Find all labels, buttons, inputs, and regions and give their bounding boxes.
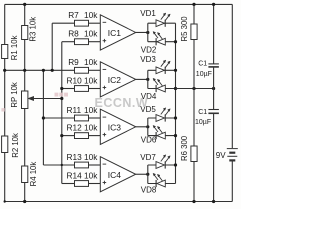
node ladder mid / R7 feed	[51, 69, 54, 72]
resistor R8 body	[75, 39, 89, 45]
svg-text:R8: R8	[68, 29, 79, 39]
capacitor C1 upper plates	[208, 63, 219, 65]
IC4 non-inverting input mark	[103, 182, 107, 184]
resistor R9 body	[75, 67, 89, 73]
VD3 emission arrows	[161, 61, 165, 66]
wire R3 column	[24, 4, 26, 25]
wire LED pair left junction VD5/VD6	[147, 118, 149, 136]
op-amp IC3	[100, 109, 135, 144]
svg-text:C1: C1	[198, 109, 207, 116]
node LED bus / VD3	[174, 69, 177, 72]
wire ladder mid bus	[5, 69, 75, 71]
resistor R11 body	[75, 115, 89, 121]
wire LED pair left junction VD7/VD8	[147, 165, 149, 184]
node mid rail / R5 column	[192, 87, 195, 90]
wire mid rail	[176, 88, 214, 90]
wire R7 feed horizontal	[52, 22, 74, 24]
wire VD7 branch	[148, 164, 176, 166]
node signal bus / R10	[60, 87, 63, 90]
LED VD8	[157, 180, 165, 187]
wire C1 upper to mid rail	[213, 67, 215, 89]
IC1 inverting input mark	[103, 21, 107, 23]
svg-text:R5 300: R5 300	[180, 16, 189, 42]
wire R12 feed	[62, 135, 75, 137]
IC2 non-inverting input mark	[103, 87, 107, 89]
svg-text:R10: R10	[67, 75, 83, 85]
node R4 column / ground rail	[23, 200, 26, 203]
battery GB 9V	[230, 148, 234, 162]
node LED bus / VD7	[174, 163, 177, 166]
resistor R6	[191, 146, 197, 162]
node LED bus / VD6	[174, 134, 177, 137]
node IC3 output junction	[146, 125, 149, 128]
svg-text:IC4: IC4	[108, 170, 122, 180]
svg-text:9V: 9V	[216, 151, 226, 160]
svg-text:VD1: VD1	[140, 9, 156, 18]
LED VD4	[157, 85, 165, 92]
LED VD7	[156, 162, 164, 169]
svg-text:10k: 10k	[84, 29, 98, 39]
wire LED pair left junction VD1/VD2	[147, 23, 149, 42]
node ladder mid / border	[3, 69, 6, 72]
svg-text:VD6: VD6	[141, 136, 157, 145]
svg-text:R6 300: R6 300	[180, 135, 189, 161]
svg-text:10k: 10k	[84, 10, 98, 20]
wire VD4 branch	[148, 88, 176, 90]
node LED bus / VD4	[174, 87, 177, 90]
node signal bus crossing R13 feed	[61, 164, 63, 166]
svg-text:R11: R11	[67, 105, 82, 115]
node signal bus / RP wiper	[60, 97, 63, 100]
wire R13 to op-amp input	[89, 164, 101, 166]
svg-text:VD8: VD8	[141, 185, 157, 194]
wire bottom ground rail	[5, 201, 233, 203]
IC4 inverting input mark	[103, 163, 107, 165]
node top rail / R3 column	[23, 3, 26, 6]
resistor R13 body	[75, 162, 89, 168]
wire left border (divider chain)	[4, 4, 6, 201]
IC3 non-inverting input mark	[103, 134, 107, 136]
wire R6 to ground rail	[193, 162, 195, 202]
svg-text:R2 10k: R2 10k	[11, 133, 20, 158]
svg-text:R4 10k: R4 10k	[29, 162, 38, 187]
svg-text:R13: R13	[67, 152, 83, 162]
svg-text:C1: C1	[198, 60, 207, 67]
svg-text:10k: 10k	[84, 75, 98, 85]
svg-text:IC1: IC1	[108, 28, 122, 38]
node ladder mid / minus bus	[42, 69, 45, 72]
svg-text:10k: 10k	[84, 152, 98, 162]
svg-text:R7: R7	[68, 10, 79, 20]
resistor R4	[22, 166, 28, 183]
wire VD1 branch	[148, 22, 176, 24]
wire VD8 branch	[148, 183, 176, 185]
VD1 emission arrows	[161, 14, 165, 19]
wire R11 feed	[43, 117, 74, 119]
svg-text:ECCN.W: ECCN.W	[95, 96, 149, 110]
svg-text:10k: 10k	[84, 170, 98, 180]
resistor R12 body	[75, 133, 89, 139]
wire R7 feed vertical	[51, 23, 53, 70]
node LED bus / VD5	[174, 116, 177, 119]
wire IC3 output	[136, 126, 148, 128]
wire R6 column top	[193, 89, 195, 147]
IC1 non-inverting input mark	[103, 40, 107, 42]
wire cap column mid	[213, 89, 215, 110]
resistor R14 body	[75, 181, 89, 187]
wire R5 column top	[193, 4, 195, 24]
RP wiper arrow	[33, 98, 62, 100]
VD2 emission arrows	[154, 33, 158, 38]
resistor R1	[2, 45, 8, 59]
svg-text:IC3: IC3	[108, 122, 122, 132]
node R5 column / top rail	[192, 3, 195, 6]
op-amp IC1	[100, 15, 135, 50]
wire R10 to op-amp input	[89, 88, 101, 90]
node signal bus / R12	[60, 134, 63, 137]
wire VD2 branch	[148, 41, 176, 43]
node mid rail / cap column	[212, 87, 215, 90]
svg-text:VD3: VD3	[140, 55, 156, 64]
LED VD5	[156, 115, 164, 122]
svg-text:10µF: 10µF	[196, 71, 212, 78]
potentiometer RP	[22, 91, 28, 109]
VD6 emission arrows	[154, 127, 158, 132]
op-amp IC2	[100, 62, 135, 97]
wire top +9V rail	[5, 3, 233, 5]
node ladder mid / R3-RP column	[23, 69, 26, 72]
LED VD3	[156, 67, 164, 74]
wire VD3 branch	[148, 69, 176, 71]
wire LED common bus	[175, 23, 177, 183]
wire IC2 output	[136, 78, 148, 80]
wire R14 to op-amp input	[89, 183, 101, 185]
VD5 emission arrows	[161, 109, 165, 114]
node IC2 output junction	[146, 78, 149, 81]
wire R8 to op-amp input	[89, 41, 101, 43]
wire R13 feed	[43, 164, 74, 166]
svg-text:■■■: ■■■	[54, 90, 69, 99]
svg-text:10µF: 10µF	[195, 119, 211, 126]
svg-text:10k: 10k	[84, 122, 98, 132]
wire IC1 output	[136, 31, 148, 33]
wire R7 to op-amp input	[89, 22, 101, 24]
wire VD5 branch	[148, 117, 176, 119]
node LED bus / VD2	[174, 40, 177, 43]
wire R11 to op-amp input	[89, 117, 101, 119]
LED VD2	[157, 38, 165, 45]
wire R5 to mid rail	[193, 40, 195, 89]
node IC1 output junction	[146, 31, 149, 34]
node minus bus / R11 feed	[42, 116, 45, 119]
svg-text:R3 10k: R3 10k	[28, 17, 37, 42]
wire C1 lower to ground rail	[213, 113, 215, 201]
svg-text:R1 10k: R1 10k	[10, 35, 19, 60]
svg-text:VD7: VD7	[140, 153, 156, 162]
svg-text:VD2: VD2	[141, 46, 157, 55]
svg-text:R12: R12	[67, 122, 83, 132]
VD8 emission arrows	[154, 175, 158, 180]
wire VD6 branch	[148, 135, 176, 137]
resistor R2	[2, 136, 8, 153]
op-amp IC4	[100, 157, 135, 192]
wire minus bus vertical	[42, 70, 44, 165]
wire signal bus vertical	[61, 42, 63, 184]
resistor R5	[191, 24, 197, 40]
resistor R7 body	[75, 20, 89, 26]
node cap column / ground rail	[212, 200, 215, 203]
svg-text:R9: R9	[68, 57, 79, 67]
node IC4 output junction	[146, 173, 149, 176]
capacitor C1 lower plates	[208, 109, 219, 111]
IC3 inverting input mark	[103, 116, 107, 118]
svg-text:RP 10k: RP 10k	[10, 82, 19, 108]
IC2 inverting input mark	[103, 68, 107, 70]
svg-text:IC2: IC2	[108, 75, 122, 85]
resistor R10 body	[75, 86, 89, 92]
svg-text:R14: R14	[67, 170, 83, 180]
node ground rail / R4 column dup	[3, 200, 5, 202]
wire IC4 output	[136, 173, 148, 175]
wire R9 to op-amp input	[89, 69, 101, 71]
LED VD1	[156, 20, 164, 27]
wire RP to R4	[24, 109, 26, 167]
svg-text:■: ■	[1, 107, 5, 114]
wire R10 feed	[62, 88, 75, 90]
svg-text:10k: 10k	[84, 57, 98, 67]
VD7 emission arrows	[161, 156, 165, 161]
wire R8 feed	[62, 41, 75, 43]
resistor R3	[22, 26, 28, 40]
node cap column / top rail	[212, 3, 215, 6]
wire R14 feed	[62, 183, 75, 185]
node R6 / ground rail	[192, 200, 195, 203]
wire LED pair left junction VD3/VD4	[147, 70, 149, 88]
wire capacitor column top	[213, 4, 215, 64]
wire R12 to op-amp input	[89, 135, 101, 137]
wire right border (battery branch)	[231, 4, 233, 201]
LED VD6	[157, 132, 165, 139]
wire R4 to ground rail	[24, 183, 26, 202]
VD4 emission arrows	[154, 80, 158, 85]
